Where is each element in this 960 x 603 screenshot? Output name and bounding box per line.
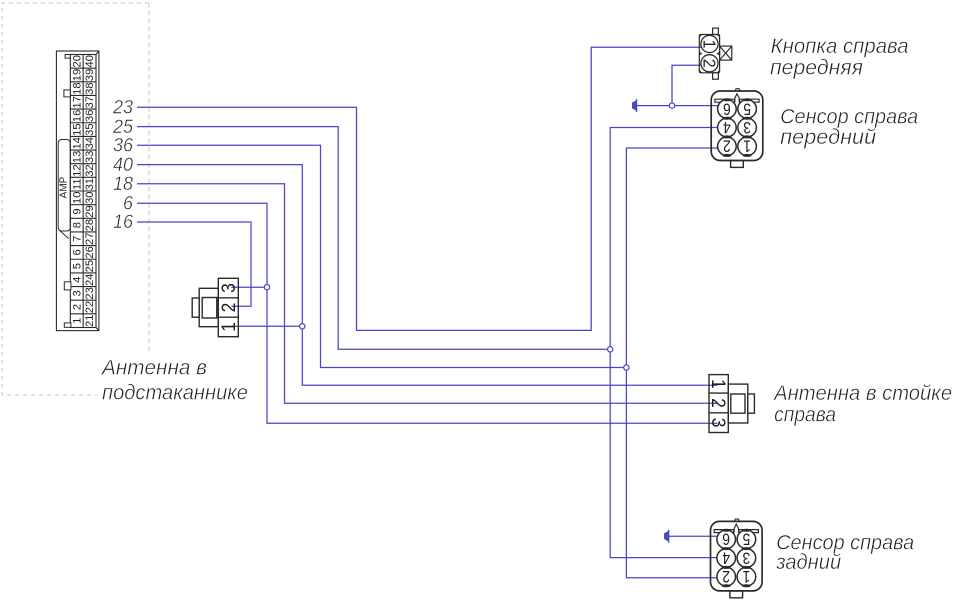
wire 6 : X1 pin6 to pillar antenna pin3 — [137, 203, 718, 423]
shield screen symbol rear — [664, 530, 668, 543]
svg-text:4: 4 — [722, 548, 730, 566]
wire cupholder antenna pin3 branch — [232, 286, 265, 288]
svg-text:8: 8 — [71, 222, 83, 228]
wire button pin2 to shield node — [672, 65, 704, 103]
rear sensor connector top key — [714, 519, 758, 532]
svg-text:Антенна в стойке: Антенна в стойке — [772, 382, 952, 405]
wire rear sensor pin6 to screen symbol (rear) — [669, 535, 722, 537]
front sensor connector pin cavities — [718, 100, 757, 156]
wire 18 : X1 pin18 to pillar antenna pin2 — [137, 184, 718, 404]
svg-text:6: 6 — [71, 249, 83, 255]
svg-text:9: 9 — [71, 208, 83, 214]
svg-text:Кнопка справа: Кнопка справа — [771, 35, 909, 58]
wire shield node to front sensor pin6 — [675, 105, 726, 107]
svg-text:19: 19 — [71, 69, 83, 81]
svg-text:14: 14 — [71, 137, 83, 149]
svg-text:10: 10 — [71, 192, 83, 204]
svg-text:13: 13 — [71, 151, 83, 163]
svg-text:1: 1 — [708, 379, 730, 389]
svg-text:3: 3 — [217, 283, 239, 293]
svg-text:2: 2 — [217, 303, 239, 313]
pillar antenna connector body — [709, 375, 754, 433]
svg-text:21: 21 — [84, 314, 96, 326]
svg-text:39: 39 — [84, 69, 96, 81]
svg-text:20: 20 — [71, 55, 83, 67]
svg-text:справа: справа — [774, 404, 836, 427]
svg-text:28: 28 — [84, 219, 96, 231]
svg-text:31: 31 — [84, 178, 96, 190]
svg-text:23: 23 — [84, 287, 96, 299]
svg-text:5: 5 — [743, 99, 751, 117]
svg-text:34: 34 — [84, 137, 96, 149]
svg-text:задний: задний — [775, 551, 841, 574]
svg-text:3: 3 — [71, 290, 83, 296]
svg-text:Антенна в: Антенна в — [100, 357, 207, 380]
svg-text:3: 3 — [743, 548, 751, 566]
rear sensor connector cavity shading — [722, 529, 751, 588]
svg-text:передний: передний — [780, 126, 876, 149]
node: wire36 / sensor pin2 bus — [624, 365, 629, 370]
svg-text:25: 25 — [84, 260, 96, 272]
svg-text:2: 2 — [71, 304, 83, 310]
svg-text:6: 6 — [723, 99, 731, 117]
svg-text:2: 2 — [708, 398, 730, 408]
svg-text:35: 35 — [84, 123, 96, 135]
svg-text:1: 1 — [699, 40, 719, 49]
front sensor connector cavity shading — [722, 98, 751, 157]
svg-text:16: 16 — [113, 211, 133, 233]
rear sensor connector body — [711, 521, 763, 597]
svg-text:2: 2 — [723, 136, 731, 154]
svg-text:передняя: передняя — [770, 57, 863, 80]
svg-text:1: 1 — [743, 567, 751, 585]
svg-text:4: 4 — [723, 118, 731, 136]
front sensor connector body — [711, 91, 763, 167]
button connector body — [699, 28, 719, 79]
svg-text:7: 7 — [71, 236, 83, 242]
svg-text:27: 27 — [84, 233, 96, 245]
svg-text:подстаканнике: подстаканнике — [102, 382, 248, 405]
button connector key (crossed box) — [720, 46, 732, 60]
cupholder antenna connector body — [192, 278, 238, 336]
wire 16 : X1 pin16 to cupholder antenna pin2 — [137, 222, 251, 306]
button connector pin circles — [701, 35, 718, 71]
svg-text:3: 3 — [743, 118, 751, 136]
node: button pin2 / shield / front sensor pin6 — [669, 103, 674, 108]
dashed harness boundary — [2, 3, 149, 395]
svg-text:17: 17 — [71, 96, 83, 108]
svg-text:22: 22 — [84, 301, 96, 313]
svg-text:3: 3 — [708, 418, 730, 428]
front sensor connector pin numbers — [723, 99, 751, 155]
svg-text:32: 32 — [84, 164, 96, 176]
node: wire25 / sensor pin4 bus — [608, 347, 613, 352]
front sensor connector top key — [715, 89, 759, 103]
wire front sensor pin4 to rear sensor pin4 — [610, 128, 726, 558]
svg-text:18: 18 — [71, 82, 83, 94]
svg-text:15: 15 — [71, 123, 83, 135]
svg-text:2: 2 — [699, 59, 719, 68]
svg-text:AMP: AMP — [59, 176, 70, 198]
svg-text:12: 12 — [71, 164, 83, 176]
wire 23 : X1 pin23 to button pin1 — [137, 47, 704, 330]
svg-text:37: 37 — [84, 96, 96, 108]
rear sensor connector pin cavities — [717, 530, 756, 586]
svg-text:5: 5 — [71, 263, 83, 269]
wire front sensor pin2 to rear sensor pin2 — [626, 148, 726, 578]
connector X1 AMP 40-pin body — [56, 51, 99, 331]
cupholder antenna pin numbers 3 2 1 — [217, 283, 239, 332]
svg-text:26: 26 — [84, 246, 96, 258]
svg-text:30: 30 — [84, 192, 96, 204]
button connector corner shades — [699, 35, 719, 73]
svg-text:33: 33 — [84, 151, 96, 163]
svg-text:4: 4 — [71, 277, 83, 283]
node: wire6 / cupholder pin3 — [264, 285, 269, 290]
connector X1 AMP brand tab — [58, 140, 70, 239]
svg-text:29: 29 — [84, 205, 96, 217]
wire 25 : X1 pin25 to sensor bus node — [137, 127, 607, 350]
svg-text:2: 2 — [722, 567, 730, 585]
svg-text:6: 6 — [722, 529, 730, 547]
wire cupholder antenna pin1 branch — [232, 325, 300, 327]
svg-text:1: 1 — [743, 136, 751, 154]
connector X1 pin numbers 1-40 — [71, 55, 96, 327]
wire shield node to screen symbol (front) — [637, 105, 670, 107]
svg-text:1: 1 — [71, 318, 83, 324]
svg-text:1: 1 — [217, 322, 239, 332]
wire 40 : X1 pin40 to pillar antenna pin1 — [137, 165, 718, 386]
node: wire40 / cupholder pin1 — [300, 324, 305, 329]
wire pin-number labels 23 25 36 40 18 6 16 — [112, 96, 133, 233]
wire 36 : X1 pin36 to sensor bus node — [137, 145, 624, 367]
svg-text:11: 11 — [71, 178, 83, 190]
svg-text:38: 38 — [84, 82, 96, 94]
svg-text:24: 24 — [84, 273, 96, 285]
svg-text:16: 16 — [71, 110, 83, 122]
svg-text:40: 40 — [84, 55, 96, 67]
svg-text:5: 5 — [743, 529, 751, 547]
shield screen symbol front — [632, 99, 636, 112]
rear sensor connector pin numbers — [722, 529, 750, 585]
svg-text:36: 36 — [84, 110, 96, 122]
connector X1 latch tabs — [64, 55, 71, 328]
pillar antenna pin numbers 1 2 3 — [708, 379, 730, 427]
